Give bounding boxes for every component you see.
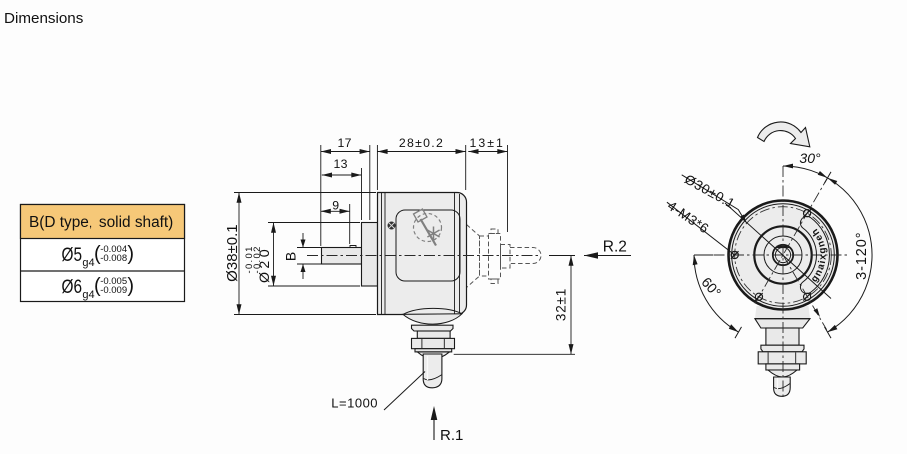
svg-text:Ø38±0.1: Ø38±0.1 — [224, 224, 241, 281]
svg-text:17: 17 — [338, 136, 352, 150]
svg-text:Dimensions: Dimensions — [4, 10, 84, 27]
svg-text:13: 13 — [333, 157, 347, 171]
svg-text:R.2: R.2 — [603, 239, 627, 256]
svg-text:g4: g4 — [82, 257, 94, 269]
svg-text:): ) — [127, 243, 134, 265]
svg-text:B(D type, solid shaft): B(D type, solid shaft) — [29, 214, 173, 231]
svg-text:30°: 30° — [799, 150, 821, 166]
svg-text:R.1: R.1 — [440, 427, 463, 444]
svg-text:3-120°: 3-120° — [854, 232, 870, 280]
svg-text:Ø5: Ø5 — [62, 244, 83, 266]
svg-text:g4: g4 — [82, 289, 94, 301]
svg-text:-0.02: -0.02 — [252, 245, 263, 273]
svg-text:B: B — [283, 252, 299, 261]
svg-text:9: 9 — [332, 198, 339, 212]
svg-text:-0.009: -0.009 — [100, 285, 127, 296]
svg-text:Ø6: Ø6 — [62, 276, 83, 298]
svg-text:32±1: 32±1 — [554, 288, 569, 321]
svg-text:L=1000: L=1000 — [331, 395, 378, 410]
svg-text:): ) — [127, 275, 134, 297]
svg-text:28±0.2: 28±0.2 — [399, 136, 444, 150]
svg-text:-0.008: -0.008 — [100, 253, 127, 264]
svg-text:13±1: 13±1 — [470, 136, 505, 150]
